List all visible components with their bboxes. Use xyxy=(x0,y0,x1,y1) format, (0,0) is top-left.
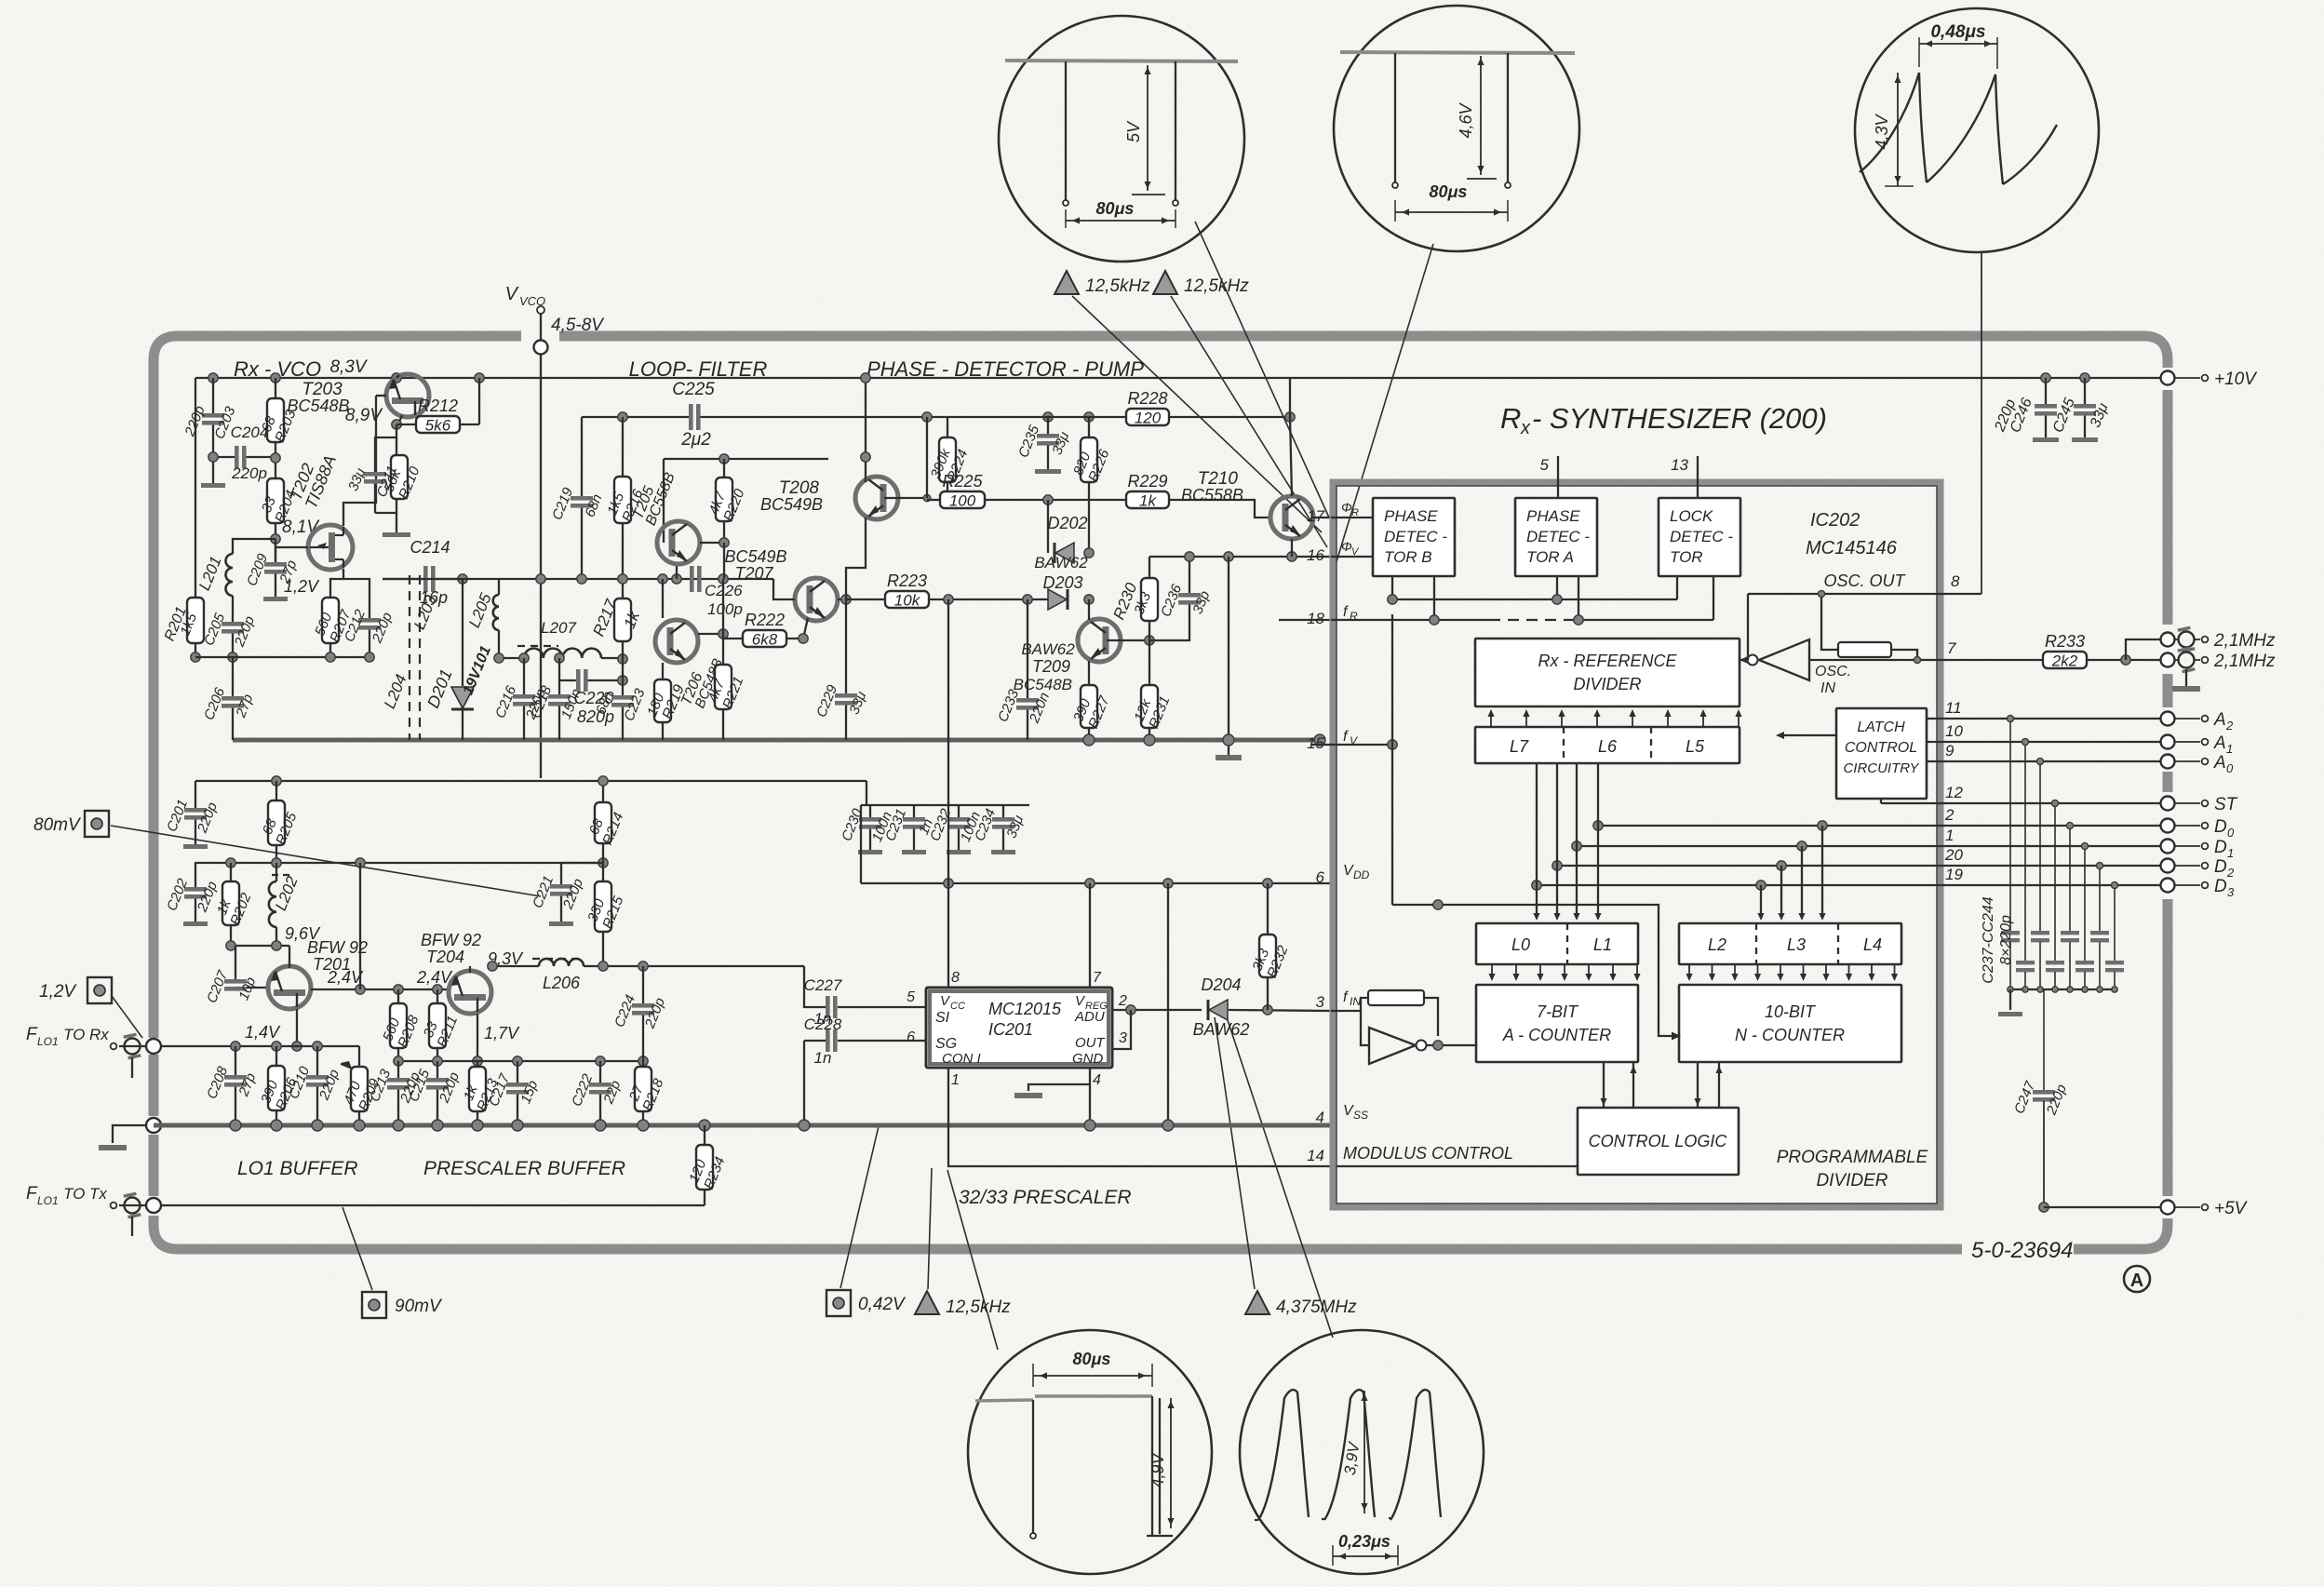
wire C235 R226 junctions on C225 line xyxy=(1043,412,1053,422)
resistor oscillator feedback xyxy=(1821,594,1838,650)
wire R210 C211 column to ground xyxy=(396,424,397,455)
wire buffer top rail 839 xyxy=(195,780,866,782)
capacitor C212 220p xyxy=(342,607,396,646)
capacitor C223 68n xyxy=(593,686,649,723)
capacitor C235 33u xyxy=(1047,417,1049,434)
test point triangle 12.5kHz right xyxy=(1153,271,1177,294)
svg-text:BAW62: BAW62 xyxy=(1034,554,1088,572)
resistor R231 12k xyxy=(1131,685,1173,731)
svg-text:9: 9 xyxy=(1945,742,1955,760)
wire ST line pin12 xyxy=(1880,799,1882,803)
capacitor C231 xyxy=(882,807,936,844)
wire VDD drop to VSS at 1255 xyxy=(1167,883,1169,1125)
resistor R234 120 below VSS rail xyxy=(699,1120,710,1131)
capacitor C208 27p xyxy=(204,1064,259,1101)
capacitor C209 27p xyxy=(244,551,300,588)
svg-text:PROGRAMMABLE: PROGRAMMABLE xyxy=(1777,1148,1928,1167)
wire cap group rail 865 xyxy=(861,804,1029,806)
block PHASE DETECTOR A xyxy=(1515,498,1597,576)
capacitor C221 220p xyxy=(561,861,603,863)
resistor R204 33 xyxy=(259,478,300,525)
node VCO tank xyxy=(191,652,200,662)
wire line 1140 xyxy=(398,1060,643,1062)
wire arrows latches to reference divider xyxy=(1487,709,1741,727)
test point square 90mV xyxy=(362,1292,386,1318)
capacitor C222 22p xyxy=(599,1061,601,1083)
svg-text:120: 120 xyxy=(1135,410,1162,427)
svg-text:5: 5 xyxy=(1540,456,1550,474)
svg-text:V: V xyxy=(505,284,519,304)
terminal A0 xyxy=(2161,755,2175,769)
terminal D0 xyxy=(2161,819,2175,833)
wire leader triangle2 to pin 16 xyxy=(1171,296,1327,547)
capacitor C227 1n xyxy=(804,976,842,1028)
svg-text:SS: SS xyxy=(1353,1109,1368,1122)
wire arrows L2 L3 L4 to N counter xyxy=(1686,964,1898,981)
capacitor C213 220p xyxy=(397,1061,399,1077)
resistor R229 1k xyxy=(1043,495,1053,504)
IC IC202 MC145146 outline xyxy=(1333,482,1941,1207)
resistor R203 68 xyxy=(259,398,300,445)
svg-text:BFW 92: BFW 92 xyxy=(307,938,368,957)
capacitor C221 220p xyxy=(530,874,586,912)
resistor R226 820 xyxy=(1070,437,1112,484)
svg-text:DETEC -: DETEC - xyxy=(1384,528,1447,545)
svg-text:+5V: +5V xyxy=(2214,1199,2249,1218)
resistor R214 68 xyxy=(586,802,627,847)
wire leader 0.42V to VSS rail xyxy=(840,1126,879,1288)
svg-text:DETEC -: DETEC - xyxy=(1670,528,1733,545)
resistor R220 4k7 xyxy=(705,477,747,524)
resistor R216 1k5 xyxy=(604,477,646,524)
svg-text:L207: L207 xyxy=(541,619,576,637)
wire IC201 pin2 ADU out xyxy=(1112,1009,1202,1011)
wire PD internal node row 644 xyxy=(1391,576,1393,599)
svg-text:10k: 10k xyxy=(894,592,921,610)
svg-text:LO1: LO1 xyxy=(37,1194,59,1207)
wire IC201 pin3 OUT loop xyxy=(1112,1010,1131,1049)
wire +10V rail xyxy=(195,377,2161,379)
transistor T206 BC548B xyxy=(655,620,698,663)
terminal D1 xyxy=(2161,840,2175,854)
svg-text:12,5kHz: 12,5kHz xyxy=(946,1298,1011,1317)
resistor R228 120 xyxy=(1126,389,1169,427)
svg-text:VCO: VCO xyxy=(519,294,545,308)
svg-text:4,6V: 4,6V xyxy=(1457,101,1475,138)
svg-text:CONTROL: CONTROL xyxy=(1845,740,1917,756)
wire T205 base column xyxy=(663,459,665,543)
svg-text:16: 16 xyxy=(1307,546,1324,564)
wire ground stub at VSS exit xyxy=(113,1125,147,1143)
svg-text:2μ2: 2μ2 xyxy=(680,430,711,450)
svg-text:PHASE: PHASE xyxy=(1384,507,1438,525)
test point triangle 4.375MHz xyxy=(1245,1291,1269,1314)
wire T204 collector to L206 line xyxy=(469,966,471,973)
capacitor C236 33p xyxy=(1158,582,1213,619)
wire phi V line pin16 xyxy=(1149,556,1331,558)
capacitor C206 27p xyxy=(232,657,234,696)
wire T201 collector to 1016 xyxy=(275,946,276,972)
capacitor C233 220n xyxy=(1027,599,1028,698)
svg-text:2: 2 xyxy=(2226,866,2235,880)
svg-text:4,9V: 4,9V xyxy=(1149,1451,1167,1487)
wire leader circle5 to fIN wire xyxy=(1227,1017,1333,1338)
wire R224 top corner xyxy=(947,417,948,437)
svg-text:2: 2 xyxy=(1944,806,1955,824)
svg-text:15: 15 xyxy=(1307,734,1324,752)
wire T205 collector branch xyxy=(664,458,828,460)
wire R201 column xyxy=(195,378,196,657)
ground stub on phiV line xyxy=(1228,557,1229,755)
resistor R205 68 xyxy=(272,776,281,786)
svg-text:R225: R225 xyxy=(942,472,983,491)
svg-text:LATCH: LATCH xyxy=(1857,720,1905,735)
capacitor C229 33u xyxy=(845,599,847,693)
resistor R207 560 xyxy=(312,598,354,645)
svg-text:1: 1 xyxy=(2227,846,2234,860)
svg-text:17: 17 xyxy=(1307,507,1324,525)
svg-text:TOR: TOR xyxy=(1670,548,1703,566)
svg-text:14: 14 xyxy=(1307,1147,1324,1164)
resistor R232 3k3 xyxy=(1267,883,1269,935)
resistor R227 390 xyxy=(1070,685,1112,731)
svg-text:L7: L7 xyxy=(1510,737,1529,756)
inductor L206 xyxy=(539,959,584,966)
svg-text:TOR B: TOR B xyxy=(1384,548,1432,566)
svg-text:4: 4 xyxy=(1316,1109,1324,1126)
capacitor C208 27p xyxy=(235,1046,236,1075)
svg-text:R222: R222 xyxy=(745,611,785,629)
svg-text:1,4V: 1,4V xyxy=(245,1023,281,1042)
svg-text:BFW 92: BFW 92 xyxy=(421,931,481,949)
svg-text:DD: DD xyxy=(1353,868,1370,881)
capacitor C224 220p xyxy=(611,993,668,1031)
svg-text:T204: T204 xyxy=(426,948,464,966)
scope inset circle square wave 4.9V 80us xyxy=(968,1330,1212,1574)
svg-text:1,2V: 1,2V xyxy=(39,982,77,1002)
svg-text:2,4V: 2,4V xyxy=(327,968,364,987)
capacitor C245 33u xyxy=(2074,404,2096,416)
resistor R233 2k2 xyxy=(2043,632,2087,670)
inductor L207 xyxy=(524,649,601,658)
capacitor C218 150n xyxy=(528,683,584,721)
wire C203 column xyxy=(212,378,214,413)
resistor R208 560 xyxy=(380,1003,422,1050)
svg-text:L4: L4 xyxy=(1863,935,1882,954)
label 80mV test point xyxy=(85,811,109,837)
wire prescaler to modulus control xyxy=(948,1068,1578,1166)
wire cap rail to VDD line xyxy=(1028,805,1030,819)
svg-text:1: 1 xyxy=(2226,742,2233,756)
wire pin16 phiV into PD B xyxy=(1331,556,1373,558)
svg-text:D203: D203 xyxy=(1042,573,1082,592)
resistor R205 68 xyxy=(260,800,301,847)
svg-text:CIRCUITRY: CIRCUITRY xyxy=(1843,760,1919,776)
resistor R210 56k xyxy=(381,455,423,502)
svg-text:2,1MHz: 2,1MHz xyxy=(2213,652,2276,671)
svg-text:8,9V: 8,9V xyxy=(345,406,383,425)
svg-text:N - COUNTER: N - COUNTER xyxy=(1735,1026,1845,1044)
capacitor C225 2u2 xyxy=(689,404,693,430)
svg-text:19: 19 xyxy=(1945,866,1963,883)
svg-text:20: 20 xyxy=(1944,846,1963,864)
wire OSC OUT line pin8 xyxy=(1748,593,1981,595)
diode D202 BAW62 xyxy=(1047,500,1049,553)
svg-text:100: 100 xyxy=(949,492,976,510)
wire C225 line xyxy=(582,416,689,418)
wire T205 emitter to R220 xyxy=(700,542,724,544)
svg-text:C237-CC244: C237-CC244 xyxy=(1981,896,1996,983)
wire T207 base from mid rail xyxy=(773,579,795,599)
svg-text:DETEC -: DETEC - xyxy=(1526,528,1590,545)
wire data line D pin 20 xyxy=(1557,865,2161,867)
svg-text:R233: R233 xyxy=(2045,632,2085,651)
inductor L203 L204 dashed xyxy=(409,575,410,740)
wire leader triangle1 to T210 xyxy=(1072,296,1322,532)
capacitor C232 100n xyxy=(958,805,960,817)
capacitor C216 220p xyxy=(519,653,529,663)
svg-text:BC548B: BC548B xyxy=(287,397,349,415)
capacitor C202 220p xyxy=(164,876,221,915)
transistor T208 BC549B xyxy=(855,477,898,519)
resistor R230 3k3 xyxy=(1149,557,1150,578)
svg-text:80μs: 80μs xyxy=(1073,1350,1111,1368)
resistor R209 470 variable xyxy=(358,1046,360,1067)
svg-text:1,7V: 1,7V xyxy=(484,1024,520,1042)
wire T207 collector node xyxy=(838,598,846,600)
capacitor C203 220p xyxy=(181,404,239,441)
inductor L205 xyxy=(498,579,500,595)
capacitor C205 220p xyxy=(201,611,258,650)
svg-text:12: 12 xyxy=(1945,784,1963,801)
transistor T210 BC558B xyxy=(1270,496,1313,539)
svg-text:x: x xyxy=(1520,418,1531,438)
resistor R226 820 xyxy=(1088,417,1090,437)
block Rx-REFERENCE DIVIDER xyxy=(1475,639,1740,706)
svg-text:TO Tx: TO Tx xyxy=(63,1185,107,1203)
svg-text:D: D xyxy=(2214,857,2227,877)
diode D201 varicap xyxy=(458,574,467,584)
svg-text:SI: SI xyxy=(935,1010,950,1026)
svg-text:D204: D204 xyxy=(1201,975,1241,994)
transistor T207 BC549B xyxy=(795,578,838,621)
resistor R223 10k xyxy=(846,598,885,600)
svg-text:T209: T209 xyxy=(1032,657,1070,676)
capacitor C246 220p xyxy=(2035,404,2057,416)
resistor R214 68 xyxy=(602,781,604,802)
terminal D2 xyxy=(2161,859,2175,873)
terminal ST xyxy=(2161,797,2175,811)
svg-text:A: A xyxy=(2130,1271,2143,1291)
svg-text:A: A xyxy=(2213,753,2226,773)
wire FLO1 Rx line xyxy=(160,1045,359,1047)
wire T206 collector node xyxy=(698,633,723,635)
svg-text:IC202: IC202 xyxy=(1810,510,1860,531)
transistor T204 BFW92 xyxy=(449,971,491,1014)
svg-text:L206: L206 xyxy=(543,974,581,992)
symbol revision circle A xyxy=(2124,1266,2150,1292)
wire VCO ground rail xyxy=(233,738,1320,743)
wire T210 output pin 17 xyxy=(1312,517,1331,518)
block 10-BIT N-COUNTER xyxy=(1679,985,1901,1062)
svg-text:IN: IN xyxy=(1350,995,1361,1008)
svg-text:Rx - REFERENCE: Rx - REFERENCE xyxy=(1538,652,1677,670)
capacitor C207 10p xyxy=(235,946,236,979)
capacitor C201 220p xyxy=(195,781,196,808)
svg-text:OSC.: OSC. xyxy=(1815,664,1851,679)
wire T204 emitter xyxy=(477,1014,478,1061)
svg-text:BAW62: BAW62 xyxy=(1021,640,1075,658)
resistor R219 180 xyxy=(662,663,664,679)
svg-text:BAW62: BAW62 xyxy=(1193,1020,1250,1039)
svg-text:13: 13 xyxy=(1671,456,1688,474)
wire C209 column xyxy=(275,539,276,562)
svg-text:1: 1 xyxy=(1945,827,1954,844)
svg-text:4,3V: 4,3V xyxy=(1873,113,1891,149)
wire node row 1016 xyxy=(231,945,289,947)
resistor R201 1k5 xyxy=(177,598,204,643)
inductor L206 xyxy=(492,965,539,967)
resistor R216 1k5 xyxy=(618,412,627,422)
svg-text:D202: D202 xyxy=(1047,514,1087,532)
svg-text:BC549B: BC549B xyxy=(760,495,823,514)
wire T208 collector to +10V rail xyxy=(865,378,866,482)
capacitor C233 220n xyxy=(995,687,1053,726)
wire to upper 2.1MHz terminal xyxy=(2126,639,2161,660)
transistor T209 BC548B xyxy=(1078,619,1121,662)
svg-text:100p: 100p xyxy=(707,600,743,618)
capacitor C214 16p xyxy=(383,578,423,580)
node 8.1V xyxy=(271,534,280,544)
wire leader 90mV to FLO1 Tx wire xyxy=(343,1207,372,1290)
capacitor C213 220p xyxy=(367,1067,423,1106)
capacitor C234 xyxy=(972,807,1027,844)
wire leader circle4 to prescaler wire xyxy=(947,1170,998,1350)
svg-text:12,5kHz: 12,5kHz xyxy=(1085,276,1150,296)
svg-text:220p: 220p xyxy=(231,464,267,482)
resistor R229 1k xyxy=(1126,472,1169,510)
wire junction dots on coupling line xyxy=(356,985,365,994)
capacitor C230 xyxy=(839,806,895,844)
resistor R220 4k7 xyxy=(719,454,729,464)
capacitor C247 220p xyxy=(2011,1079,2070,1118)
wire +5V line xyxy=(2044,1206,2161,1208)
wire IC201 pin4 GND down to VSS xyxy=(1089,1068,1091,1125)
wire pin13 stub xyxy=(1697,456,1699,498)
capacitor C245 33u xyxy=(2080,373,2089,383)
block CONTROL LOGIC xyxy=(1578,1108,1739,1175)
capacitor C228 1n xyxy=(804,1040,826,1042)
svg-text:12,5kHz: 12,5kHz xyxy=(1184,276,1249,296)
svg-text:DIVIDER: DIVIDER xyxy=(1816,1171,1887,1190)
inductor L202 xyxy=(269,881,276,927)
wire rail 927 xyxy=(195,862,603,864)
svg-text:5k6: 5k6 xyxy=(425,417,451,435)
wire data line D pin 1 xyxy=(1577,845,2161,847)
wire FLO1 Tx line xyxy=(160,1204,705,1206)
resistor R225 100 xyxy=(927,499,940,501)
svg-text:1k: 1k xyxy=(1139,492,1157,510)
wire data line D pin 2 xyxy=(1598,825,2161,827)
resistor R213 1k xyxy=(461,1067,502,1113)
wire T210 collector to +10V rail xyxy=(1289,378,1291,417)
resistor R225 100 xyxy=(940,472,985,510)
svg-text:7-BIT: 7-BIT xyxy=(1537,1002,1579,1021)
wire pin17 phiR into PD B xyxy=(1331,517,1373,518)
resistor R228 120 xyxy=(947,416,1126,418)
resistor R212 5k6 xyxy=(416,397,460,435)
svg-text:6: 6 xyxy=(1316,868,1325,886)
wire VDD line 949 xyxy=(861,882,1331,884)
svg-text:TO Rx: TO Rx xyxy=(63,1026,109,1043)
resistor R208 560 xyxy=(397,989,399,1003)
capacitor C210 220p xyxy=(316,1046,318,1075)
block LATCH CONTROL CIRCUITRY xyxy=(1836,708,1927,799)
wire T201 emitter to Rx line xyxy=(296,1009,298,1046)
svg-text:2,4V: 2,4V xyxy=(416,968,453,987)
resistor R221 4k7 xyxy=(722,634,724,665)
svg-text:0: 0 xyxy=(2226,761,2234,775)
terminal VSS rail exit xyxy=(146,1118,161,1133)
svg-text:7: 7 xyxy=(1947,639,1956,657)
capacitor C201 220p xyxy=(164,798,221,836)
capacitor C202 220p xyxy=(195,863,196,887)
svg-text:DIVIDER: DIVIDER xyxy=(1573,675,1641,693)
wire fv vertical chain xyxy=(1391,599,1393,745)
svg-text:8: 8 xyxy=(951,970,960,986)
resistor R202 1k xyxy=(214,881,255,928)
svg-text:L3: L3 xyxy=(1787,935,1806,954)
wire T202 drain to 8.9V node xyxy=(343,424,376,526)
capacitor C223 68n xyxy=(618,654,627,664)
inverter oscillator buffer xyxy=(1740,639,1941,680)
test point triangle 12.5kHz left xyxy=(1055,271,1079,294)
wire N counter to control logic xyxy=(1697,1062,1699,1108)
svg-text:2: 2 xyxy=(2225,719,2234,733)
wire fv feed to counters xyxy=(1392,905,1673,1036)
resistor R234 120 xyxy=(686,1145,728,1191)
wire latch programming verticals right group xyxy=(1760,885,1762,917)
svg-text:32/33 PRESCALER: 32/33 PRESCALER xyxy=(959,1187,1132,1208)
test point triangle 12.5kHz bottom xyxy=(915,1291,939,1314)
resistor R212 5k6 xyxy=(396,424,416,425)
wire T210 emitter to pin16 line xyxy=(1291,539,1293,557)
resistor R213 1k xyxy=(477,1061,478,1067)
svg-text:80mV: 80mV xyxy=(34,815,82,835)
resistor R202 1k xyxy=(226,858,235,867)
svg-text:A - COUNTER: A - COUNTER xyxy=(1502,1026,1611,1044)
wire data line D pin 19 xyxy=(1537,884,2161,886)
svg-text:L2: L2 xyxy=(1708,935,1726,954)
resistor R218 27 xyxy=(642,1061,644,1067)
capacitor C215 220p xyxy=(406,1067,463,1106)
wire V_VCO down into loop filter xyxy=(540,314,542,778)
inverter fIN amplifier xyxy=(1369,1028,1476,1064)
svg-text:R: R xyxy=(1500,402,1521,435)
svg-text:ADU: ADU xyxy=(1074,1009,1105,1025)
scope inset circle spikes 3.9V 0.23us xyxy=(1240,1330,1484,1574)
svg-text:1: 1 xyxy=(951,1072,960,1088)
svg-text:C214: C214 xyxy=(410,538,450,557)
wire A counter to control logic xyxy=(1603,1062,1605,1108)
svg-text:IN: IN xyxy=(1820,680,1835,696)
svg-text:3: 3 xyxy=(2227,885,2235,899)
terminal V_VCO xyxy=(537,306,544,314)
node 8.9V xyxy=(392,420,401,429)
diode D203 BAW62 xyxy=(1048,589,1068,610)
wire fIN input network xyxy=(1331,1011,1369,1045)
terminal A2 xyxy=(2161,712,2175,726)
